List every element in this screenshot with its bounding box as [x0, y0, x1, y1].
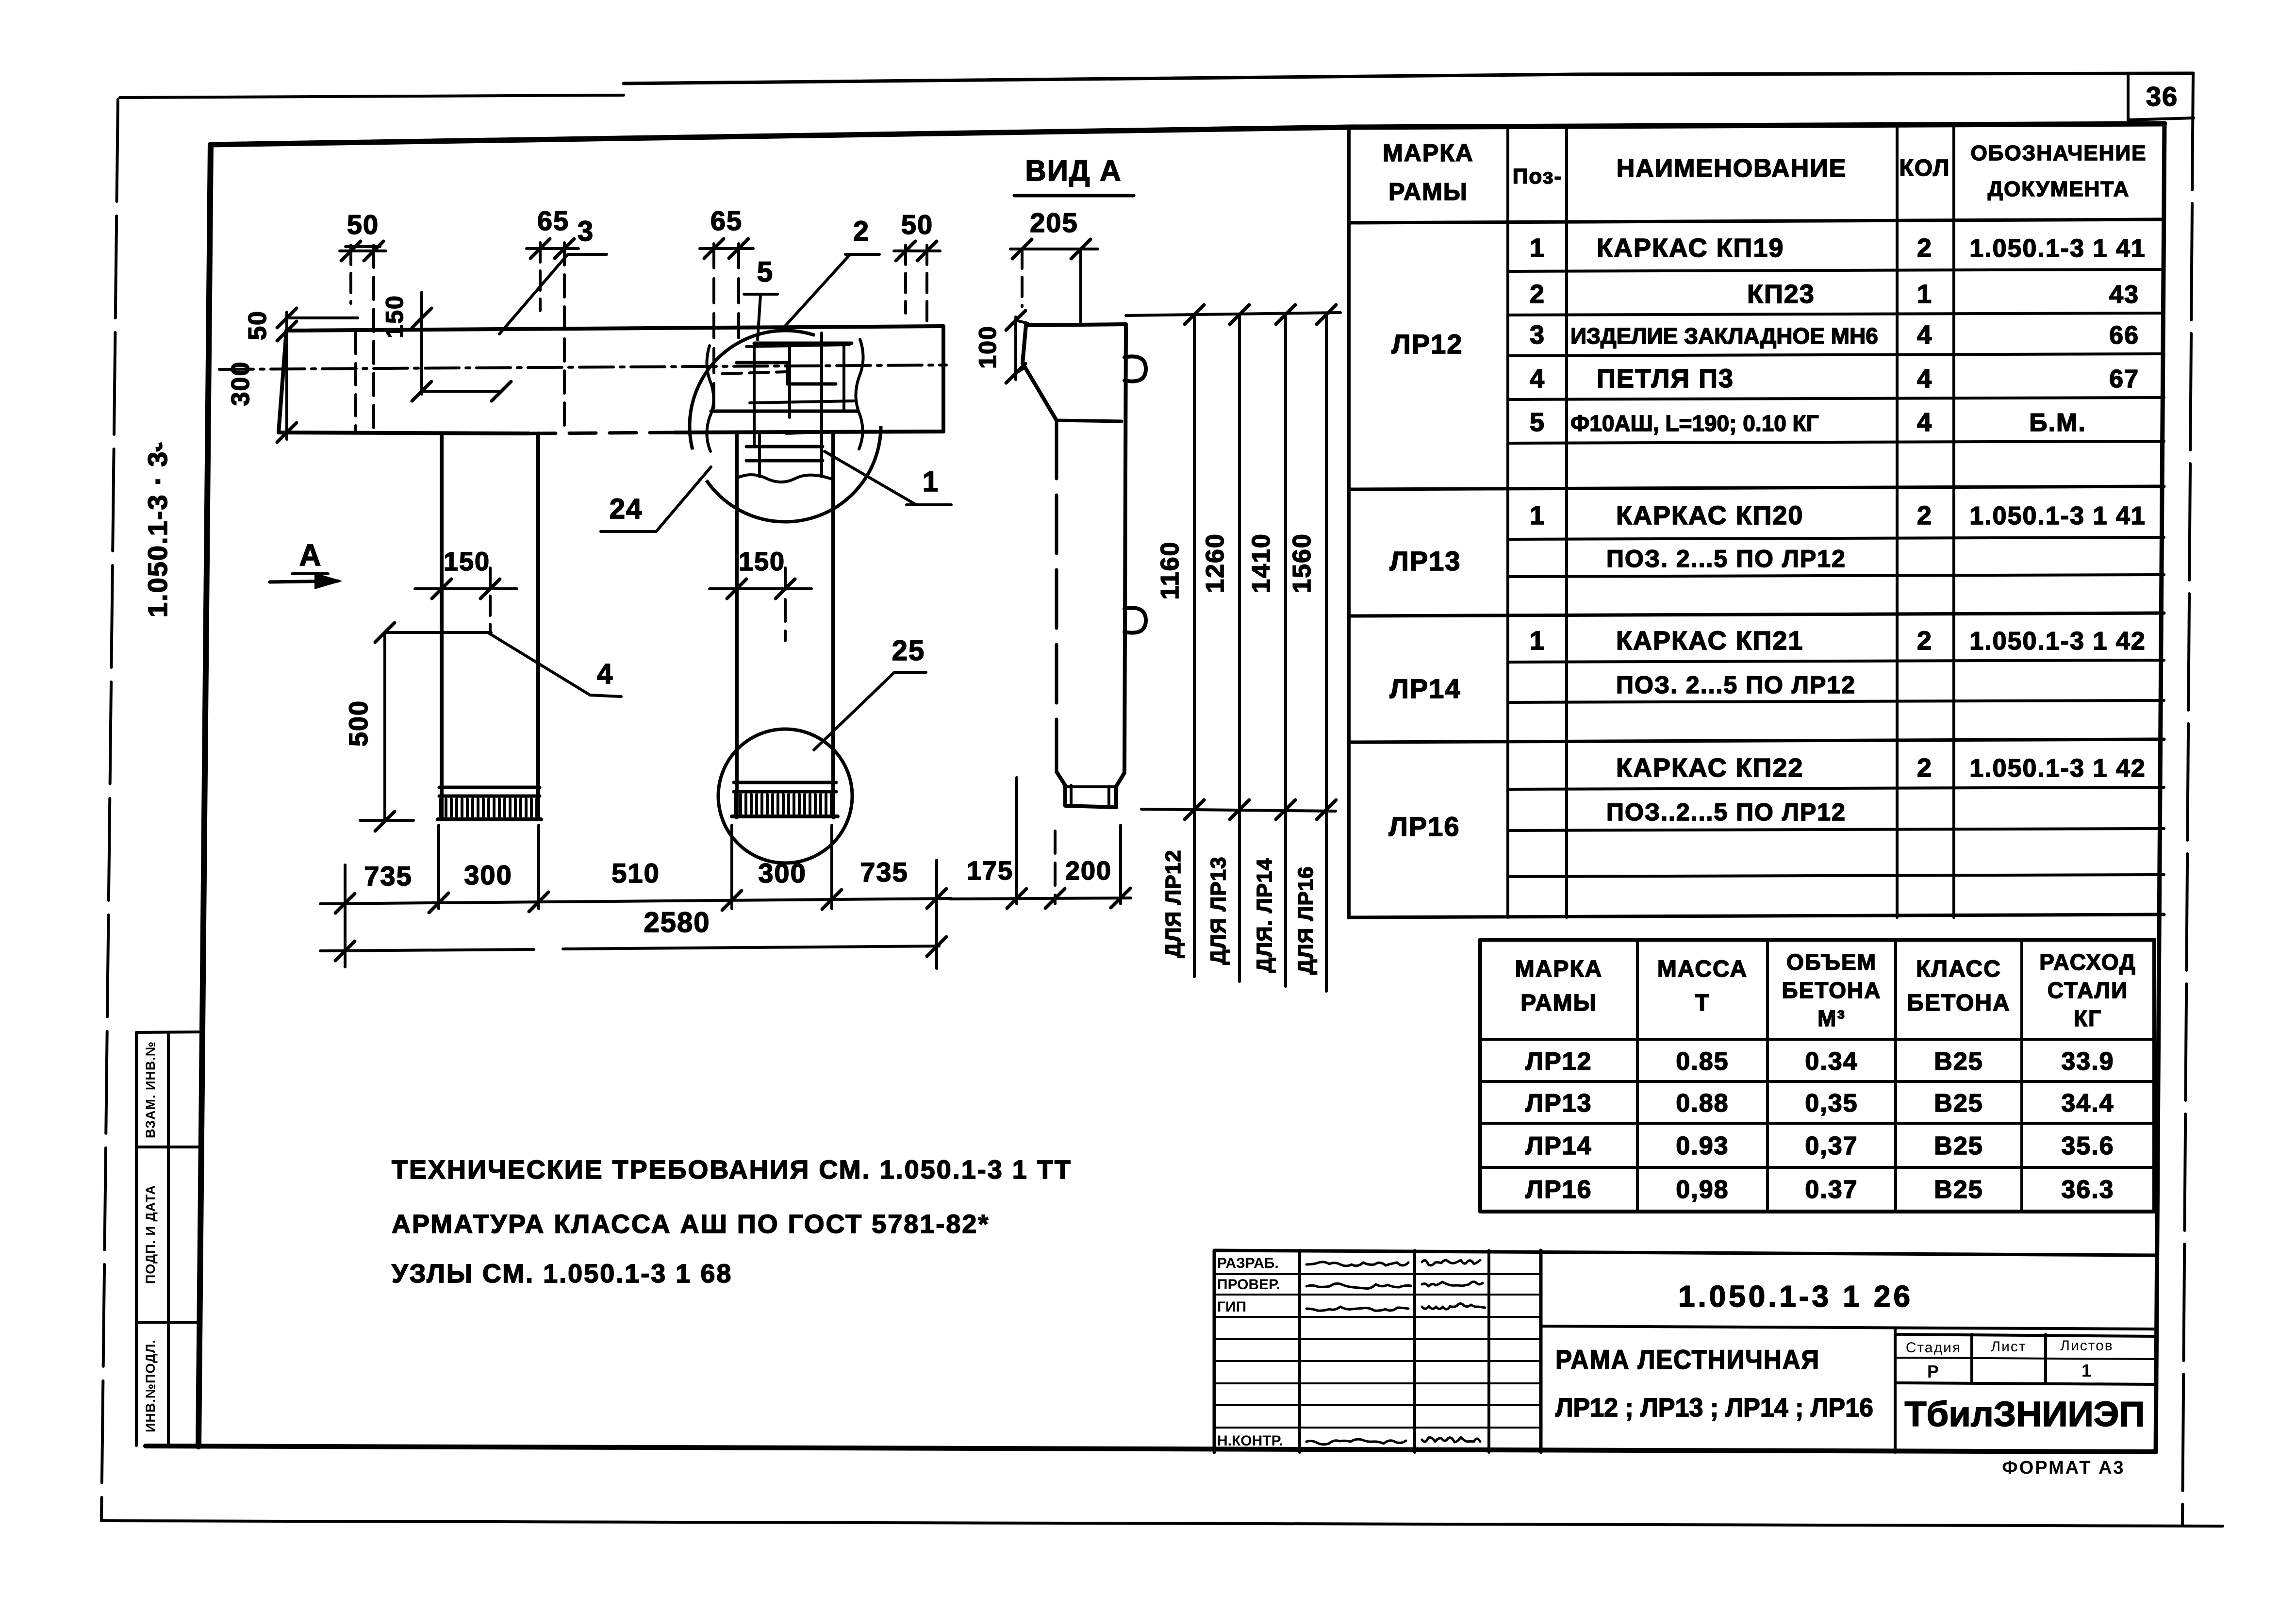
- hook top: [1124, 356, 1146, 381]
- junction detail: embedded channel: [754, 342, 852, 345]
- svg-text:Р: Р: [1927, 1362, 1940, 1381]
- svg-text:ДЛЯ ЛР13: ДЛЯ ЛР13: [1206, 856, 1230, 964]
- labels dlya LR12..16: [1193, 810, 1196, 977]
- mass table grid: [1478, 940, 1482, 1212]
- svg-text:ЛР13: ЛР13: [1390, 546, 1461, 576]
- left leg base line2: [439, 795, 540, 798]
- svg-text:ИНВ.№ПОДЛ.: ИНВ.№ПОДЛ.: [143, 1339, 158, 1432]
- name scribble prover: [1306, 1283, 1411, 1288]
- frame bottom: [146, 1446, 2156, 1452]
- outer border bottom: [101, 1521, 2223, 1526]
- svg-text:0.34: 0.34: [1805, 1047, 1858, 1076]
- left leg: [440, 433, 444, 817]
- svg-text:1: 1: [923, 466, 939, 498]
- svg-text:67: 67: [2109, 365, 2139, 393]
- dim 150 right leg: [710, 587, 811, 590]
- svg-text:ЛР14: ЛР14: [1525, 1132, 1592, 1160]
- bottom dim row 735/300/510/300/735: [320, 898, 951, 904]
- svg-text:1260: 1260: [1201, 533, 1229, 593]
- signature razrab: [1422, 1260, 1480, 1265]
- svg-text:Б.М.: Б.М.: [2029, 409, 2086, 437]
- stadia grid: [1895, 1334, 2156, 1336]
- outer border top-left segment: [120, 95, 624, 98]
- svg-text:2: 2: [1917, 501, 1933, 530]
- svg-text:5: 5: [757, 256, 774, 288]
- svg-text:ЛР16: ЛР16: [1525, 1176, 1592, 1204]
- svg-text:Стадия: Стадия: [1906, 1340, 1961, 1356]
- svg-text:0,98: 0,98: [1676, 1176, 1729, 1204]
- svg-text:В25: В25: [1934, 1089, 1983, 1117]
- svg-text:ДОКУМЕНТА: ДОКУМЕНТА: [1988, 177, 2130, 201]
- junction detail: position lines 65: [712, 244, 715, 417]
- svg-text:1: 1: [1530, 626, 1545, 655]
- svg-text:1.050.1-3 1 41: 1.050.1-3 1 41: [1969, 234, 2146, 263]
- signoff table: [1298, 1250, 1301, 1452]
- svg-text:4: 4: [1530, 364, 1545, 393]
- leader 1: [825, 451, 916, 505]
- spec table grid: [1347, 127, 1351, 917]
- svg-text:КП23: КП23: [1747, 280, 1815, 309]
- leader 2: [845, 253, 879, 256]
- svg-text:1.050.1-3 1 42: 1.050.1-3 1 42: [1969, 627, 2146, 655]
- dim 50 top-right: [894, 249, 940, 252]
- dims 175 / 200: [950, 898, 1131, 899]
- junction detail: extra inner lines: [788, 343, 791, 417]
- svg-text:4: 4: [597, 658, 613, 690]
- svg-text:4: 4: [1917, 320, 1933, 349]
- svg-text:Лист: Лист: [1991, 1339, 2026, 1355]
- leader 4: [488, 632, 590, 695]
- svg-text:205: 205: [1030, 207, 1078, 238]
- svg-text:33.9: 33.9: [2061, 1047, 2114, 1076]
- detail circle 25: [718, 729, 852, 863]
- right leg base line1: [734, 781, 836, 784]
- junction detail: channel bottom: [711, 410, 858, 413]
- svg-text:2: 2: [1917, 626, 1933, 655]
- svg-text:5: 5: [1530, 408, 1545, 437]
- dim 100 side: [1014, 317, 1017, 380]
- hook bottom: [1124, 608, 1146, 632]
- svg-text:0.93: 0.93: [1676, 1132, 1729, 1160]
- svg-text:150: 150: [739, 547, 785, 576]
- svg-text:КАРКАС КП21: КАРКАС КП21: [1616, 626, 1803, 655]
- right leg base hatch: [734, 795, 737, 814]
- side column body top line: [1057, 420, 1122, 421]
- svg-text:ПРОВЕР.: ПРОВЕР.: [1217, 1277, 1280, 1293]
- svg-text:35.6: 35.6: [2061, 1132, 2114, 1160]
- svg-text:1: 1: [1530, 501, 1545, 530]
- svg-text:2: 2: [1917, 233, 1933, 263]
- svg-text:КЛАСС: КЛАСС: [1916, 956, 2001, 982]
- dim 50 top-left: [340, 249, 386, 252]
- svg-text:1: 1: [1530, 233, 1545, 263]
- svg-text:БЕТОНА: БЕТОНА: [1907, 990, 2010, 1016]
- svg-text:2: 2: [1530, 280, 1545, 309]
- svg-text:ЛР12: ЛР12: [1525, 1047, 1592, 1076]
- detail circle 24 (arc): [690, 331, 881, 522]
- signature prover: [1422, 1282, 1483, 1286]
- svg-text:0.85: 0.85: [1676, 1047, 1729, 1076]
- svg-text:1.050.1-3 1 42: 1.050.1-3 1 42: [1969, 754, 2146, 782]
- svg-text:РАЗРАБ.: РАЗРАБ.: [1217, 1255, 1279, 1271]
- svg-text:100: 100: [974, 325, 1001, 368]
- svg-text:66: 66: [2109, 321, 2139, 349]
- dim 150 rotated: [420, 292, 423, 394]
- title code cell: [1541, 1326, 2156, 1329]
- dim 500 vertical: [383, 632, 386, 821]
- left leg base bottom: [438, 817, 541, 821]
- beam outline: [286, 326, 943, 331]
- svg-text:УЗЛЫ СМ. 1.050.1-3 1 6: УЗЛЫ СМ. 1.050.1-3 1 68: [392, 1259, 732, 1288]
- svg-text:ЛР12: ЛР12: [1392, 329, 1463, 359]
- svg-text:65: 65: [710, 205, 743, 236]
- signature n.contr: [1422, 1437, 1480, 1442]
- svg-text:24: 24: [610, 493, 643, 525]
- junction detail: step Z: [737, 363, 836, 384]
- dim 65 second: [700, 247, 753, 250]
- dim stack 50/300 left: [285, 312, 288, 439]
- svg-text:БЕТОНА: БЕТОНА: [1782, 978, 1882, 1003]
- name scribble gip: [1306, 1307, 1408, 1311]
- leader 3: [568, 253, 607, 256]
- svg-text:ГИП: ГИП: [1217, 1299, 1246, 1315]
- svg-text:А: А: [299, 539, 322, 572]
- svg-text:РАМЫ: РАМЫ: [1520, 990, 1597, 1016]
- svg-text:РАСХОД: РАСХОД: [2039, 949, 2136, 975]
- svg-text:500: 500: [344, 700, 373, 747]
- svg-text:300: 300: [227, 361, 255, 406]
- frame right: [2156, 124, 2164, 1452]
- svg-text:1.050.1-3 1 41: 1.050.1-3 1 41: [1969, 502, 2146, 530]
- svg-text:ДЛЯ. ЛР14: ДЛЯ. ЛР14: [1253, 858, 1276, 973]
- svg-text:ТбилЗНИИЭП: ТбилЗНИИЭП: [1905, 1395, 2145, 1434]
- svg-text:36.3: 36.3: [2061, 1176, 2114, 1204]
- side column feet inner lines: [1070, 785, 1073, 806]
- svg-text:МАРКА: МАРКА: [1515, 956, 1603, 982]
- title block outer: [1214, 1250, 2156, 1255]
- svg-text:ДЛЯ ЛР12: ДЛЯ ЛР12: [1161, 849, 1185, 958]
- svg-text:ДЛЯ ЛР16: ДЛЯ ЛР16: [1294, 866, 1318, 974]
- svg-text:ПОЗ. 2...5 ПО ЛР12: ПОЗ. 2...5 ПО ЛР12: [1616, 671, 1856, 698]
- outer border left: [101, 100, 118, 1521]
- signature gip: [1422, 1304, 1485, 1310]
- svg-text:ФОРМАТ А3: ФОРМАТ А3: [2002, 1458, 2125, 1478]
- svg-text:ПОЗ..2...5 ПО ЛР12: ПОЗ..2...5 ПО ЛР12: [1606, 798, 1846, 826]
- svg-text:25: 25: [892, 635, 925, 666]
- svg-text:0,37: 0,37: [1805, 1132, 1858, 1160]
- right leg: [735, 433, 739, 817]
- svg-text:175: 175: [967, 856, 1013, 885]
- page number box 36: [2127, 74, 2130, 120]
- svg-text:735: 735: [364, 861, 412, 891]
- svg-text:43: 43: [2109, 281, 2139, 309]
- svg-text:Т: Т: [1695, 990, 1710, 1016]
- svg-text:ЛР14: ЛР14: [1390, 673, 1461, 704]
- svg-text:4: 4: [1917, 364, 1933, 393]
- left leg base hatch: [439, 799, 442, 816]
- svg-text:510: 510: [611, 858, 660, 888]
- svg-text:НАИМЕНОВАНИЕ: НАИМЕНОВАНИЕ: [1617, 154, 1847, 183]
- left stamp strip boxes: [135, 1032, 138, 1446]
- svg-text:50: 50: [244, 310, 272, 340]
- svg-text:1160: 1160: [1156, 541, 1184, 600]
- svg-text:СТАЛИ: СТАЛИ: [2048, 978, 2128, 1003]
- svg-text:МАССА: МАССА: [1657, 956, 1748, 982]
- svg-text:КОЛ: КОЛ: [1899, 155, 1950, 181]
- svg-text:2580: 2580: [644, 907, 710, 938]
- svg-text:300: 300: [464, 860, 512, 890]
- svg-text:65: 65: [537, 205, 569, 236]
- right leg base line2: [734, 790, 836, 794]
- svg-text:0,35: 0,35: [1805, 1089, 1858, 1117]
- svg-text:1: 1: [2081, 1361, 2092, 1380]
- svg-text:150: 150: [381, 295, 408, 338]
- vertical dims 1160/1260/1410/1560: [1126, 313, 1340, 316]
- svg-text:1.050.1-3 1 26: 1.050.1-3 1 26: [1678, 1280, 1913, 1313]
- svg-text:36: 36: [2146, 81, 2178, 112]
- svg-text:Листов: Листов: [2060, 1338, 2113, 1354]
- leader 5: [744, 293, 777, 296]
- svg-text:КАРКАС КП20: КАРКАС КП20: [1616, 501, 1803, 530]
- right leg base bottom: [732, 814, 838, 818]
- svg-text:РАМЫ: РАМЫ: [1388, 178, 1468, 205]
- svg-text:1: 1: [1917, 280, 1933, 309]
- svg-text:34.4: 34.4: [2061, 1089, 2114, 1117]
- svg-text:ПОЗ. 2...5 ПО ЛР12: ПОЗ. 2...5 ПО ЛР12: [1606, 545, 1846, 572]
- svg-text:4: 4: [1917, 408, 1933, 437]
- svg-text:РАМА ЛЕСТНИЧНАЯ: РАМА ЛЕСТНИЧНАЯ: [1555, 1344, 1820, 1375]
- frame left: [198, 145, 211, 1446]
- beam centerline dash-dot: [219, 365, 946, 369]
- junction detail: leg-top plate 1: [746, 445, 823, 449]
- svg-text:150: 150: [444, 547, 490, 576]
- svg-text:ВЗАМ. ИНВ.№: ВЗАМ. ИНВ.№: [143, 1041, 158, 1138]
- svg-text:ЛР16: ЛР16: [1389, 811, 1460, 842]
- svg-text:3: 3: [578, 216, 594, 247]
- svg-text:ТЕХНИЧЕСКИЕ ТРЕБОВАНИЯ С: ТЕХНИЧЕСКИЕ ТРЕБОВАНИЯ СМ. 1.050.1-3 1 Т…: [392, 1155, 1072, 1184]
- svg-text:В25: В25: [1934, 1176, 1983, 1204]
- svg-text:3: 3: [1530, 320, 1545, 349]
- frame top: [211, 124, 2164, 145]
- left leg base line1: [439, 786, 540, 789]
- svg-text:2: 2: [1917, 753, 1933, 782]
- svg-text:В25: В25: [1934, 1047, 1983, 1076]
- svg-text:1560: 1560: [1288, 533, 1316, 593]
- svg-text:КГ: КГ: [2074, 1006, 2102, 1031]
- outer border right: [2182, 73, 2193, 1524]
- position line left loop: [354, 332, 357, 432]
- svg-text:Н.КОНТР.: Н.КОНТР.: [1217, 1433, 1283, 1449]
- side column outline: [1026, 324, 1126, 807]
- svg-text:735: 735: [860, 857, 908, 887]
- svg-text:2: 2: [853, 216, 870, 247]
- small horizontal dim: [422, 390, 501, 393]
- name scribble razrab: [1306, 1262, 1408, 1266]
- svg-text:В25: В25: [1934, 1132, 1983, 1160]
- dim 205: [1010, 248, 1098, 250]
- dim 150 left leg: [415, 587, 517, 590]
- svg-text:0.88: 0.88: [1676, 1089, 1729, 1117]
- svg-text:ПОДП. И ДАТА: ПОДП. И ДАТА: [143, 1185, 158, 1284]
- name scribble n.contr: [1306, 1439, 1406, 1445]
- svg-text:300: 300: [758, 858, 806, 888]
- svg-text:КАРКАС КП19: КАРКАС КП19: [1597, 233, 1784, 263]
- dim 65 first: [527, 247, 578, 250]
- svg-text:М³: М³: [1817, 1006, 1846, 1031]
- svg-text:50: 50: [347, 209, 379, 240]
- svg-text:1410: 1410: [1247, 533, 1275, 593]
- svg-text:50: 50: [901, 209, 933, 240]
- extension lines bottom dims: [344, 865, 347, 967]
- dim 2580: [320, 949, 534, 951]
- junction detail: wavy break bottom: [737, 475, 833, 482]
- title name cell: [1894, 1329, 1897, 1452]
- svg-text:АРМАТУРА КЛАССА АШ ПО: АРМАТУРА КЛАССА АШ ПО ГОСТ 5781-82*: [392, 1210, 990, 1239]
- svg-text:0.37: 0.37: [1805, 1176, 1858, 1204]
- outer border top main: [624, 73, 2193, 83]
- svg-text:200: 200: [1065, 856, 1112, 885]
- junction detail: wavy break right: [856, 339, 863, 449]
- svg-text:ВИД А: ВИД А: [1025, 154, 1122, 187]
- junction detail: wavy break left: [707, 346, 713, 451]
- leader 24: [601, 530, 656, 533]
- svg-text:ПЕТЛЯ П3: ПЕТЛЯ П3: [1597, 364, 1734, 393]
- svg-text:Поз-: Поз-: [1513, 165, 1562, 188]
- svg-text:КАРКАС КП22: КАРКАС КП22: [1616, 753, 1803, 782]
- leader 25: [814, 672, 894, 750]
- svg-text:ИЗДЕЛИЕ ЗАКЛАДНОЕ МН6: ИЗДЕЛИЕ ЗАКЛАДНОЕ МН6: [1570, 323, 1878, 349]
- svg-text:1.050.1-3 · 3˞: 1.050.1-3 · 3˞: [142, 441, 173, 617]
- svg-text:МАРКА: МАРКА: [1383, 139, 1474, 166]
- svg-text:ОБОЗНАЧЕНИЕ: ОБОЗНАЧЕНИЕ: [1971, 141, 2147, 165]
- svg-text:Ф10АШ, L=190; 0.10 КГ: Ф10АШ, L=190; 0.10 КГ: [1570, 411, 1819, 436]
- svg-text:ЛР12 ; ЛР13 ; ЛР14 ; ЛР16: ЛР12 ; ЛР13 ; ЛР14 ; ЛР16: [1555, 1393, 1873, 1422]
- svg-text:ОБЪЕМ: ОБЪЕМ: [1786, 949, 1877, 975]
- svg-text:ЛР13: ЛР13: [1525, 1089, 1592, 1117]
